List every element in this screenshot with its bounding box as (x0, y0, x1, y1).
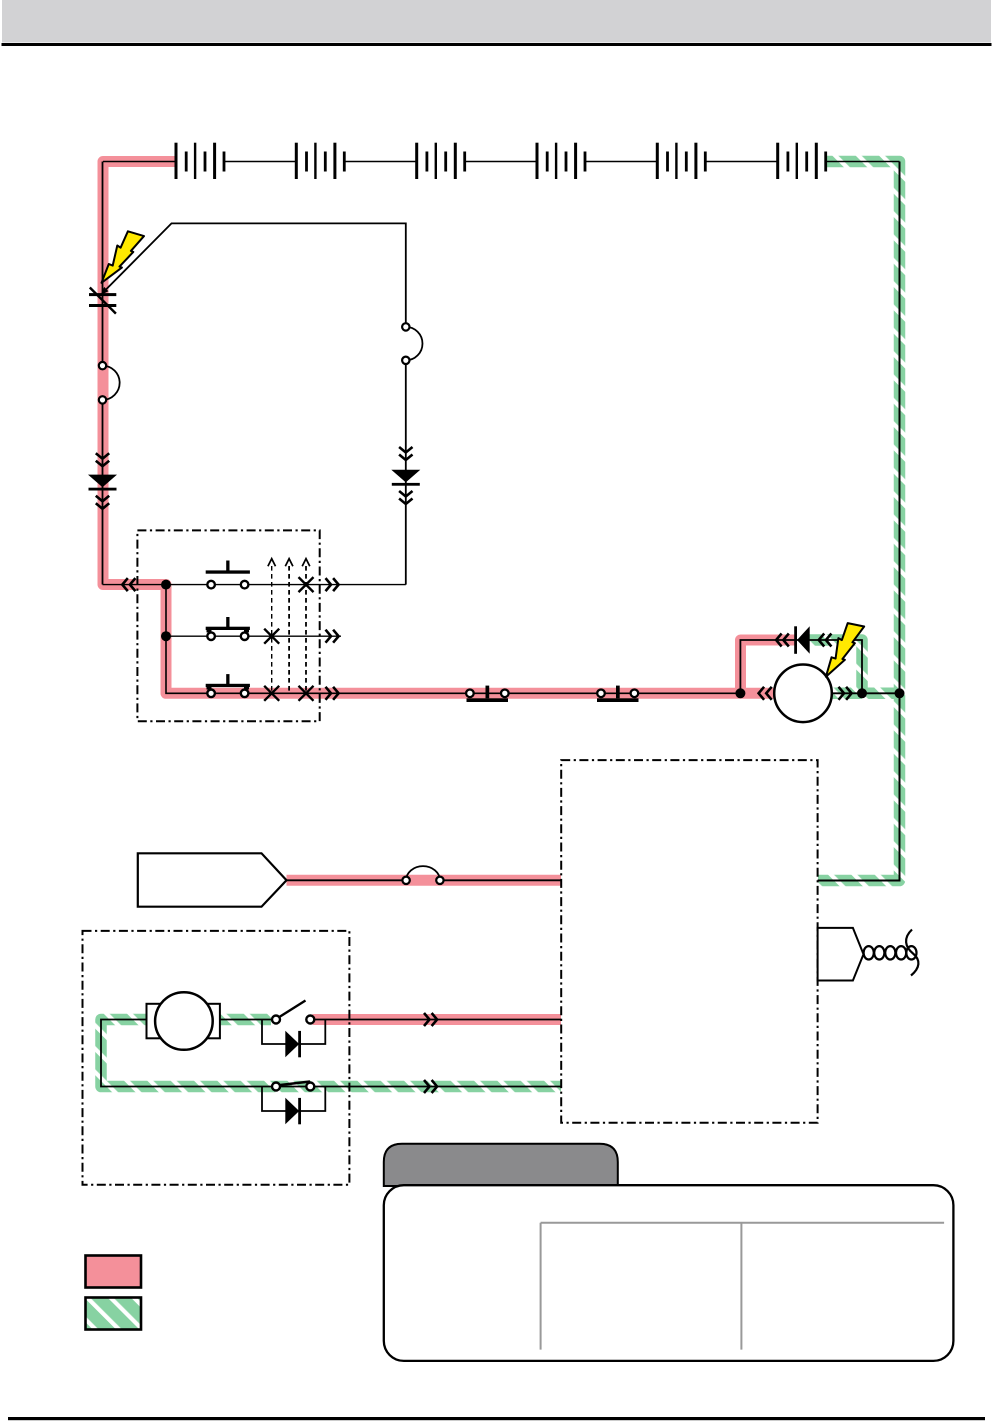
limit switch SW7 (closed) with bypass diode D5 (262, 1082, 325, 1125)
chevrons leaving box row2 (326, 630, 339, 643)
inline connector on pentagon wire (402, 866, 443, 884)
wire: motor M2 to switch SW6 (220, 1019, 276, 1021)
diode D3 (points left) (794, 626, 810, 654)
wire: top bypass loop diagonal and horizontal to x=405.8 (105, 223, 406, 584)
wire: pentagon to control unit (287, 879, 562, 881)
antenna lead break squiggle (906, 930, 918, 976)
switch SW1 row1 (open) (206, 561, 250, 589)
wire: actuator loop left side (101, 1020, 561, 1087)
junction node right of motor (857, 688, 867, 698)
junction node at motor feed (735, 688, 745, 698)
wire: SW6 to control unit (315, 1019, 562, 1021)
push switch SW4 on row3 run (closed, plunger up) (466, 686, 509, 702)
contact cross row2-L1 (264, 629, 279, 644)
antenna coil (864, 946, 917, 959)
limit switch SW6 (open) with bypass diode D4 (262, 1001, 325, 1058)
motor M1 (774, 665, 832, 723)
wire: motor top bypass (740, 640, 862, 693)
legend green hatched swatch (86, 1298, 142, 1330)
harness chevrons on bypass branch below diode (399, 491, 412, 504)
wire: battery bus along top y=161.5 (103, 161, 900, 163)
contact cross row1-L3 (299, 577, 314, 592)
chevrons leaving box row1 (326, 578, 339, 591)
battery G2 (295, 143, 346, 179)
wire: green return bus vertical (818, 162, 900, 881)
legend red swatch (86, 1256, 142, 1288)
junction node on green bus (895, 688, 905, 698)
chevrons before motor M1 (759, 687, 772, 700)
mechanical linkage dashed line L1 (268, 559, 276, 694)
wire: motor M1 to green bus (832, 692, 900, 694)
switch SW3 row3 (closed) (206, 674, 250, 697)
green hatched highlight band: return path right side (101, 162, 900, 1087)
wire: row1 y=584.6 (103, 584, 406, 586)
switch assembly box (dash-dot) (137, 530, 319, 721)
battery G6 (776, 143, 827, 179)
contact cross row3-L3 (299, 686, 314, 701)
diode D2 on bypass branch (391, 470, 420, 486)
push switch SW5 on row3 run (closed, plunger up) (597, 686, 639, 702)
chevrons left of diode D3 (776, 634, 789, 647)
battery G4 (536, 143, 587, 179)
chevrons leaving box row3 (326, 687, 339, 700)
battery G1 (175, 143, 226, 179)
note box body (384, 1185, 954, 1361)
note table lines (541, 1223, 945, 1350)
footer rule (8, 1417, 985, 1420)
wire: left feed vertical x=102.5 (102, 162, 104, 585)
open-circuit point symbol on left feed (89, 287, 116, 314)
chevrons entering box row1 (122, 578, 135, 591)
lightning bolt 2 (821, 622, 868, 677)
chevrons after motor M1 (839, 687, 852, 700)
contact cross row3-L1 (264, 686, 279, 701)
note box tab (384, 1144, 618, 1186)
lightning bolt 1 (102, 231, 145, 282)
harness chevrons on bypass branch above diode (399, 447, 412, 460)
junction node row2 (161, 631, 171, 641)
switch SW2 row2 (closed) (206, 617, 250, 640)
diode D1 on left feed (88, 475, 117, 491)
fuse block pentagon (138, 853, 287, 906)
chevrons on actuator return wire (424, 1080, 437, 1093)
control unit box (dash-dot) (561, 760, 817, 1123)
harness chevrons on left feed below diode (96, 496, 109, 509)
battery G3 (415, 143, 466, 179)
chevrons right of diode D3 (819, 634, 832, 647)
actuator box (dash-dot) (83, 931, 350, 1185)
inline connector on bypass branch x=405.8 (402, 323, 422, 364)
mechanical linkage dashed line L3 (302, 559, 310, 694)
junction node row1 (161, 580, 171, 590)
header bar (2, 0, 992, 46)
wire: row3 red run y=693.3 (166, 585, 740, 694)
mechanical linkage dashed line L2 (285, 559, 293, 694)
chevrons on SW6 output wire (424, 1013, 437, 1026)
antenna connector pentagon on control unit (818, 928, 864, 981)
red highlight band: battery feed down left side through switch box row3 to motor (103, 162, 795, 1020)
inline connector on left feed (99, 362, 120, 404)
battery G5 (656, 143, 707, 179)
wire: row2 y=636.2 (166, 635, 341, 637)
harness chevrons on left feed above diode (96, 453, 109, 466)
motor M2 (147, 992, 220, 1050)
